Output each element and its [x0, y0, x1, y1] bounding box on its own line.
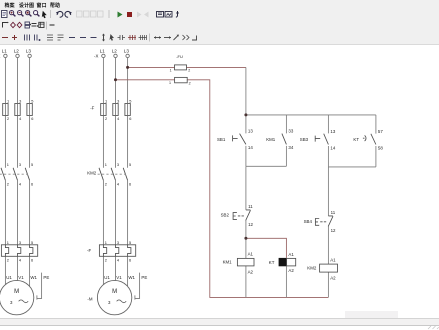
svg-text:33: 33: [288, 129, 293, 134]
svg-text:2: 2: [189, 82, 191, 86]
svg-text:13: 13: [248, 129, 253, 134]
svg-text:2: 2: [188, 68, 190, 72]
svg-text:1: 1: [170, 68, 172, 72]
svg-text:11: 11: [248, 204, 253, 209]
svg-text:A2: A2: [330, 275, 336, 280]
svg-text:-FU: -FU: [176, 54, 183, 59]
svg-text:SB3: SB3: [300, 137, 309, 142]
svg-text:11: 11: [331, 210, 336, 215]
svg-text:SB2: SB2: [221, 212, 230, 217]
svg-text:12: 12: [331, 228, 336, 233]
svg-text:14: 14: [330, 145, 335, 150]
svg-text:KM1: KM1: [266, 137, 276, 142]
svg-text:13: 13: [330, 129, 335, 134]
svg-text:KM2: KM2: [307, 265, 317, 270]
svg-text:12: 12: [248, 222, 253, 227]
svg-text:SB4: SB4: [304, 219, 313, 224]
svg-text:A2: A2: [248, 269, 254, 274]
svg-text:57: 57: [378, 129, 383, 134]
svg-text:34: 34: [288, 145, 293, 150]
svg-text:58: 58: [378, 145, 383, 150]
svg-text:SB1: SB1: [217, 137, 226, 142]
svg-text:A1: A1: [288, 252, 294, 257]
svg-text:KM1: KM1: [223, 260, 233, 265]
svg-text:1: 1: [169, 81, 171, 85]
svg-text:KT: KT: [269, 260, 275, 265]
svg-text:KT: KT: [353, 137, 359, 142]
svg-text:14: 14: [248, 145, 253, 150]
svg-text:A1: A1: [248, 252, 254, 257]
svg-text:A2: A2: [288, 268, 294, 273]
svg-text:A1: A1: [330, 258, 336, 263]
